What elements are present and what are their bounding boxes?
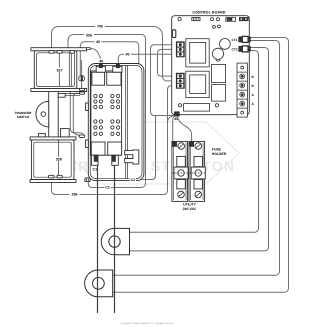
svg-text:C1: C1: [105, 186, 110, 190]
wire CT2 pin upper to top CT (B): [130, 48, 269, 251]
svg-text:327: 327: [57, 68, 63, 72]
top tab right pin: [116, 64, 119, 67]
IC U1: [192, 17, 200, 20]
wire 40 horizontal run over coil: [80, 42, 139, 76]
connector J1: [176, 42, 184, 57]
coil 327 bottom flange: [31, 88, 87, 91]
coil 327 top flange: [31, 48, 87, 51]
CT top hole: [109, 236, 120, 247]
top cell left: [92, 72, 105, 85]
fuse unit 1 upper clip: [177, 156, 186, 166]
coil 327 lower-right pad 1: [80, 88, 85, 90]
hole bottom-left: [178, 104, 181, 107]
coil 328 bottom flange: [30, 180, 76, 183]
coil 327 inner wall: [69, 53, 71, 87]
E bracket: [125, 150, 139, 164]
coil 327 terminal pad 2: [57, 51, 62, 54]
fuse unit 1 lower clip: [177, 180, 186, 189]
jumper block J3: [226, 17, 236, 21]
mounting hole top-left: [178, 17, 181, 20]
svg-text:Copyright © Briggs & Stratton,: Copyright © Briggs & Stratton, LLC. All …: [120, 322, 174, 325]
connector K2: [244, 18, 248, 21]
wire CT1 pin lower to bottom CT (C): [113, 41, 280, 276]
contactor body: [91, 71, 122, 155]
CT1 connector: [231, 36, 250, 42]
svg-text:240 VAC: 240 VAC: [183, 207, 197, 211]
wire fuse 2 from board bottom: [177, 116, 191, 141]
label 296: [70, 192, 80, 197]
wire 556 / C1: coil top to C1 run: [68, 35, 146, 188]
bottom tab right: [112, 155, 119, 165]
wire 40 J1 pin3 to right tab: [118, 54, 176, 64]
relay RL2: [186, 71, 209, 97]
capacitor C5 left edge: [172, 30, 175, 38]
contact dots grid: [94, 94, 120, 135]
bottom rect R1: [184, 104, 210, 112]
relay RL1: [186, 39, 209, 67]
wire coil winding exit descender: [70, 92, 83, 135]
fuse unit 1 top screw: [178, 143, 185, 150]
label C1 (upper): [92, 167, 98, 172]
coil 328 body: [31, 140, 74, 180]
wire coil 327 pad1 stub: [77, 89, 80, 91]
fuse unit 2 lower clip: [194, 180, 203, 189]
svg-text:CT1: CT1: [231, 38, 237, 42]
fuse unit 2: [189, 141, 205, 201]
left clip 2: [86, 140, 89, 148]
label 705: [95, 24, 105, 29]
wire coil 327 pad2 to lower pill: [73, 93, 79, 135]
fuse unit 1 bottom screw: [178, 191, 185, 198]
bottom tab left: [92, 155, 99, 165]
coil 328 pad2: [57, 175, 62, 178]
label C2: [130, 177, 136, 182]
coil 327 lower-right pad 2: [80, 92, 85, 94]
svg-text:C1: C1: [92, 168, 97, 172]
box on flange left: [38, 134, 45, 137]
coil 327 leader line: [58, 53, 60, 86]
left clip 1: [86, 103, 89, 111]
pivot circle: [41, 112, 46, 117]
wire 296: coil L2 pad to board bottom connector: [52, 115, 177, 195]
top cell right: [107, 72, 121, 85]
svg-text:SWITCH: SWITCH: [17, 115, 30, 119]
board outline: [172, 16, 250, 115]
coil 327 terminal pad 3: [70, 51, 75, 54]
bottom cell left: [91, 142, 105, 155]
label 40 (right tab run): [124, 52, 131, 57]
fuse unit 2 bottom screw: [195, 191, 202, 198]
svg-text:C2: C2: [130, 178, 135, 182]
wire 40 below inline connector to coil pad: [81, 60, 83, 88]
wire C1 left curl from contactor left tab: [90, 165, 96, 178]
fuse unit 1 clamp: [173, 142, 177, 147]
load wire right through top CT: [114, 165, 116, 313]
wire J2 pin3 branch: [168, 86, 177, 123]
inline connector on wire 40: [79, 76, 85, 81]
fuse unit 2 top screw: [195, 143, 202, 150]
top tab left: [96, 66, 105, 72]
connector J2: [176, 73, 184, 88]
connector K1: [239, 18, 243, 21]
fuse unit 1: [172, 141, 188, 201]
bottom tab left pin: [94, 156, 97, 161]
armature bar: [49, 92, 59, 137]
casing top-left terminal pad: [86, 48, 90, 50]
transformer circle T1: [220, 39, 231, 50]
svg-text:40: 40: [99, 59, 103, 63]
bottom cell right: [108, 142, 122, 155]
heatsink H1: [212, 65, 226, 83]
terminal strip TB1: [237, 63, 247, 117]
cam D-shape: [36, 101, 49, 127]
svg-text:CONTROL BOARD: CONTROL BOARD: [192, 11, 225, 15]
casing bottom-left terminal: [85, 178, 90, 182]
fuse unit 2 upper clip: [194, 156, 203, 166]
label C1 (run): [104, 185, 110, 190]
label 328: [55, 157, 63, 162]
svg-text:CT2: CT2: [231, 47, 237, 51]
fuse unit 2 barrel: [191, 167, 205, 179]
armature step: [58, 93, 65, 97]
hole: [217, 18, 220, 21]
bottom tab right pin: [112, 156, 115, 161]
svg-text:HOLDER: HOLDER: [212, 152, 227, 156]
svg-text:296: 296: [72, 193, 78, 197]
contactor casing: [88, 64, 144, 181]
hole bottom-mid: [215, 104, 218, 107]
hole: [213, 25, 216, 28]
svg-text:40: 40: [126, 53, 130, 57]
watermark hexagon logo: [66, 122, 239, 184]
svg-text:40: 40: [174, 117, 178, 121]
coil 328 leader line: [58, 140, 60, 175]
coil 327 body: [34, 51, 77, 89]
wire J1 pin1 to board bottom connector: [151, 45, 177, 116]
CT bottom hole: [93, 278, 105, 290]
transformer circle T2: [212, 48, 223, 59]
wire fuse 1 from board bottom: [173, 116, 175, 141]
coil 327 terminal pad 1: [49, 51, 54, 54]
label 556: [84, 33, 94, 38]
wire CT1 pin upper to bottom CT (D): [113, 38, 289, 293]
fuse unit 2 clamp: [190, 142, 194, 147]
wire 705: coil L1 pad1 to board lower connector J2 pin2: [52, 27, 177, 81]
CT top body: [101, 228, 129, 254]
box on flange mid: [61, 129, 70, 137]
wire link J1 pin2 to J2 pin1: [158, 49, 177, 76]
top tab left pin: [99, 64, 102, 67]
svg-text:328: 328: [56, 157, 62, 161]
fuse unit 1 barrel: [174, 167, 188, 179]
board bottom connector 40: [175, 112, 180, 116]
coil 328 top flange: [30, 137, 76, 140]
svg-text:40: 40: [96, 40, 100, 44]
svg-text:705: 705: [97, 25, 103, 29]
svg-text:556: 556: [86, 33, 92, 37]
contactor inner wall: [126, 66, 128, 179]
label 40 (horizontal run): [95, 40, 102, 45]
wire CT2 pin lower to top CT (A): [130, 51, 259, 233]
heatsink H2: [212, 85, 226, 102]
pill pad right of flange: [79, 135, 85, 138]
wire 40 casing terminal to left tab: [91, 48, 102, 64]
load wire left through bottom CT: [97, 165, 99, 313]
coil 328 pad1: [48, 175, 54, 178]
top tab right: [113, 66, 122, 72]
hole: [218, 25, 221, 28]
label 40 (left tab): [98, 59, 105, 64]
wire C2: contactor right tab to J2 pin3: [115, 115, 155, 179]
armature bracket lines: [58, 93, 80, 95]
hole: [211, 18, 214, 21]
CT bottom body: [85, 270, 113, 297]
CT2 connector: [231, 46, 250, 52]
label 327: [56, 68, 64, 73]
